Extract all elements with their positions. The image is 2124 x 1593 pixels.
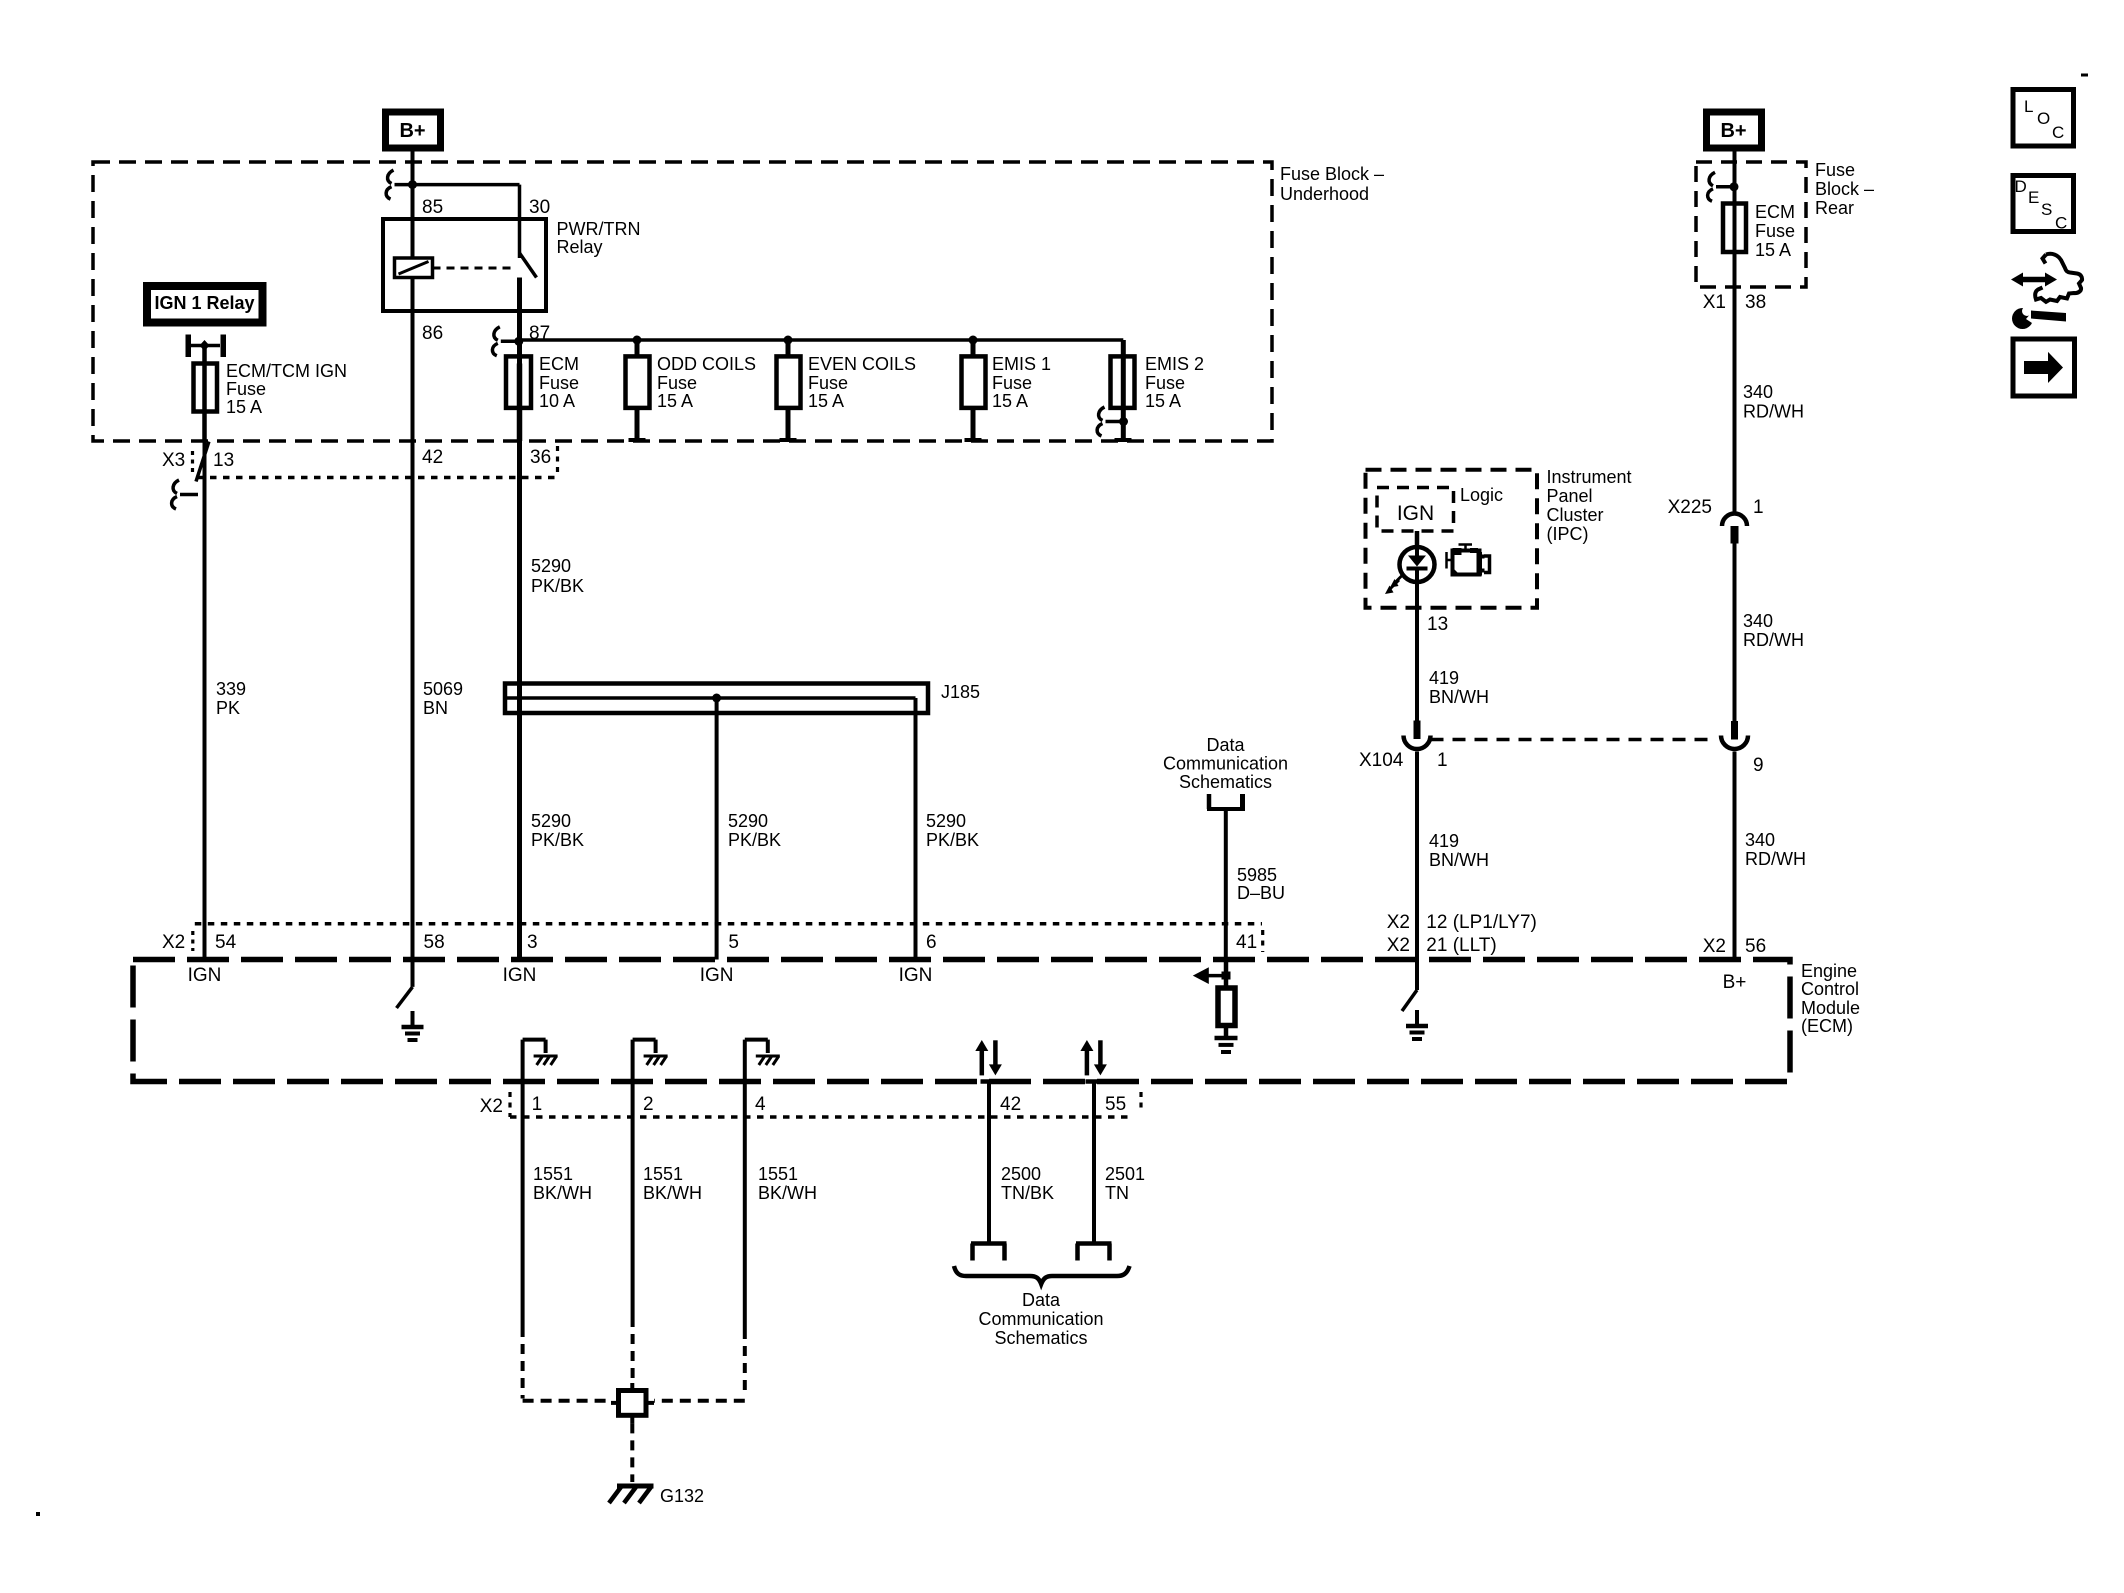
svg-text:339: 339 — [216, 679, 246, 699]
svg-text:2500: 2500 — [1001, 1164, 1041, 1184]
pin X2-56 labels — [1703, 936, 1766, 957]
svg-text:BK/WH: BK/WH — [643, 1183, 702, 1203]
svg-text:1: 1 — [532, 1094, 543, 1115]
connector X3 dotted bracket — [191, 451, 194, 474]
svg-text:5290: 5290 — [531, 556, 571, 576]
wire 5290 to ECM pin 6 — [914, 698, 918, 960]
svg-text:5290: 5290 — [728, 811, 768, 831]
Fuse Block - Rear boundary box — [1696, 162, 1806, 287]
Fuse Block - Rear label — [1815, 160, 1874, 218]
fuse F3: ODD COILS Fuse 15 A — [626, 340, 650, 440]
dashed lead to G132 — [630, 1423, 634, 1482]
svg-text:Data: Data — [1206, 735, 1245, 755]
ECM serial data arrows (pin 55) — [1080, 1040, 1107, 1075]
svg-text:IGN: IGN — [899, 965, 933, 986]
svg-text:Instrument: Instrument — [1547, 467, 1632, 487]
wire label 419 BN/WH (upper) — [1429, 668, 1489, 707]
ground G132 — [609, 1486, 654, 1503]
svg-text:9: 9 — [1753, 755, 1764, 776]
wire label 5290 PK/BK (pin 5) — [728, 811, 781, 850]
wire label 2501 TN — [1105, 1164, 1145, 1203]
IPC Logic label — [1460, 485, 1503, 505]
svg-text:6: 6 — [926, 932, 937, 953]
svg-text:PK/BK: PK/BK — [926, 830, 979, 850]
svg-text:15 A: 15 A — [808, 391, 844, 411]
svg-text:X2: X2 — [1387, 935, 1410, 956]
svg-text:BN/WH: BN/WH — [1429, 687, 1489, 707]
svg-text:BN: BN — [423, 698, 448, 718]
ECM internal ground pigtail (pin 1) — [523, 1040, 558, 1065]
tick at ECM pin 42 (bottom) — [981, 1079, 998, 1084]
svg-text:12 (LP1/LY7): 12 (LP1/LY7) — [1426, 912, 1537, 933]
pin 41 label — [1236, 932, 1257, 953]
ECM fuse label — [539, 354, 579, 411]
pin 6 label — [926, 932, 937, 953]
wire label 419 BN/WH (lower) — [1429, 831, 1489, 870]
wire B+ rear down — [1733, 152, 1737, 253]
pin 55 label (bottom) — [1105, 1094, 1126, 1115]
fuse F6: EMIS 2 Fuse 15 A — [1111, 356, 1135, 440]
node: ODD COILS bus junction — [633, 336, 642, 345]
svg-text:30: 30 — [529, 197, 550, 218]
wire 5290 to ECM pin 3 — [517, 441, 522, 960]
inline connector X104 pin 1 — [1404, 721, 1431, 750]
relay switch blade (pin30 to 87) — [520, 253, 537, 278]
wire label 5290 PK/BK (pin 3) — [531, 811, 584, 850]
pin row right dotted bracket — [556, 446, 559, 477]
connector X1 pin 38 labels — [1703, 292, 1766, 313]
svg-text:340: 340 — [1743, 611, 1773, 631]
Fuse Block - Underhood label — [1280, 164, 1384, 204]
ECM internal label IGN (pin 54) — [188, 965, 222, 986]
IPC logic box IGN — [1377, 488, 1454, 532]
wire label 5290 PK/BK (pin 6) — [926, 811, 979, 850]
power node B+ (left feed) — [386, 112, 441, 148]
icon box: right arrow — [2013, 339, 2075, 396]
svg-text:ECM: ECM — [1755, 202, 1795, 222]
svg-text:TN: TN — [1105, 1183, 1129, 1203]
lamp rays — [1385, 574, 1404, 595]
svg-text:IGN: IGN — [1397, 502, 1434, 525]
ECM internal: terminating resistor — [1218, 960, 1235, 1039]
svg-text:BK/WH: BK/WH — [758, 1183, 817, 1203]
pin 85 label — [422, 197, 443, 218]
svg-text:15 A: 15 A — [657, 391, 693, 411]
ECM internal label IGN (pin 3) — [503, 965, 537, 986]
pin row dotted line (bottom) — [510, 1115, 1133, 1119]
wire 340 RD/WH upper — [1733, 252, 1737, 514]
svg-text:B+: B+ — [399, 120, 425, 142]
svg-text:15 A: 15 A — [226, 397, 262, 417]
svg-text:X104: X104 — [1359, 750, 1404, 771]
splice S: ground splice — [611, 1383, 654, 1423]
connector slash at X3-13 — [196, 442, 209, 482]
pin 42 label — [422, 447, 443, 468]
wire 5069 BN: relay 86 to ECM pin 58 — [411, 278, 415, 987]
icon: vehicle with arrows and wrench — [2011, 254, 2082, 329]
wire label 5290 PK/BK (upper) — [531, 556, 584, 596]
svg-text:56: 56 — [1745, 936, 1766, 957]
wire 87 to ECM fuse — [517, 311, 522, 364]
connector X2 label (bottom) — [480, 1096, 503, 1117]
Data Communication Schematics label (bottom) — [978, 1290, 1103, 1348]
svg-text:Fuse: Fuse — [539, 373, 579, 393]
node: rear B+ junction — [1730, 182, 1739, 191]
svg-text:PK/BK: PK/BK — [531, 830, 584, 850]
wire label 5985 D-BU — [1237, 865, 1285, 903]
svg-text:BK/WH: BK/WH — [533, 1183, 592, 1203]
icon box LOC — [2013, 90, 2074, 147]
svg-text:(ECM): (ECM) — [1801, 1016, 1853, 1036]
svg-text:5290: 5290 — [531, 811, 571, 831]
svg-text:Fuse: Fuse — [992, 373, 1032, 393]
switch slant at pin 58 (internal) — [397, 987, 413, 1008]
svg-text:Logic: Logic — [1460, 485, 1503, 505]
svg-text:Fuse: Fuse — [226, 379, 266, 399]
wire B+ to PWR/TRN relay pin 85 (coil) — [411, 152, 415, 259]
relay label PWR/TRN — [557, 219, 641, 257]
svg-text:X2: X2 — [162, 932, 185, 953]
svg-text:42: 42 — [422, 447, 443, 468]
svg-text:Data: Data — [1022, 1290, 1061, 1310]
G132 label — [660, 1486, 704, 1506]
brace: data communication group — [954, 1266, 1130, 1284]
svg-text:15 A: 15 A — [1145, 391, 1181, 411]
svg-text:IGN 1 Relay: IGN 1 Relay — [154, 293, 254, 313]
svg-text:PWR/TRN: PWR/TRN — [557, 219, 641, 239]
svg-text:RD/WH: RD/WH — [1743, 402, 1804, 422]
svg-text:10 A: 10 A — [539, 391, 575, 411]
wire 340 RD/WH lower — [1733, 752, 1737, 960]
svg-text:Schematics: Schematics — [1179, 772, 1272, 792]
tick at ECM pin 55 (bottom) — [1086, 1079, 1103, 1084]
svg-text:41: 41 — [1236, 932, 1257, 953]
connector X2 dotted bracket (left) — [191, 931, 194, 951]
connector hook at EMIS 2 — [1097, 407, 1123, 436]
wire 2501 TN — [1092, 1082, 1096, 1243]
pin 86 label — [422, 323, 443, 344]
svg-text:Control: Control — [1801, 979, 1859, 999]
svg-text:C: C — [2055, 214, 2067, 233]
svg-text:ODD COILS: ODD COILS — [657, 354, 756, 374]
svg-text:5: 5 — [728, 932, 739, 953]
svg-text:EMIS 1: EMIS 1 — [992, 354, 1051, 374]
svg-text:419: 419 — [1429, 668, 1459, 688]
svg-text:21 (LLT): 21 (LLT) — [1426, 935, 1496, 956]
wire 5290: fuse bus from relay 87 — [519, 340, 1124, 356]
pin row dotted bracket left (bottom) — [508, 1092, 511, 1117]
svg-text:13: 13 — [1427, 614, 1448, 635]
icon box DESC — [2013, 176, 2074, 233]
wire 1551 BK/WH (pin 4) — [654, 1040, 745, 1401]
svg-text:X3: X3 — [162, 450, 185, 471]
svg-text:Schematics: Schematics — [994, 1328, 1087, 1348]
svg-text:1551: 1551 — [533, 1164, 573, 1184]
fuse F5: EMIS 1 Fuse 15 A — [962, 340, 986, 440]
check-engine icon — [1447, 545, 1490, 576]
pin 9 label — [1753, 755, 1764, 776]
ground (internal) under pin 58 — [402, 1011, 424, 1040]
pigtail terminal (2501) — [1076, 1244, 1112, 1261]
svg-text:ECM: ECM — [539, 354, 579, 374]
svg-text:55: 55 — [1105, 1094, 1126, 1115]
svg-text:5290: 5290 — [926, 811, 966, 831]
svg-text:340: 340 — [1745, 830, 1775, 850]
svg-text:13: 13 — [213, 450, 234, 471]
svg-text:Communication: Communication — [1163, 754, 1288, 774]
ECM serial data arrows (pin 42) — [975, 1040, 1002, 1075]
svg-text:X2: X2 — [480, 1096, 503, 1117]
svg-text:15 A: 15 A — [1755, 240, 1791, 260]
fuse F7: ECM Fuse 15 A (rear) — [1723, 204, 1746, 253]
J185 label — [941, 682, 980, 702]
ECM internal: serial data branch arrow — [1193, 967, 1231, 984]
svg-text:1551: 1551 — [643, 1164, 683, 1184]
ODD COILS fuse label — [657, 354, 756, 411]
pin 36 label — [530, 447, 551, 468]
wire label 340 RD/WH (upper) — [1743, 611, 1804, 650]
svg-text:S: S — [2041, 200, 2052, 219]
node: EMIS 2 lower junction — [1119, 417, 1128, 426]
svg-text:Fuse: Fuse — [657, 373, 697, 393]
Engine Control Module (ECM) boundary box — [133, 960, 1790, 1082]
wire label 340 RD/WH (lower) — [1745, 830, 1806, 869]
connector X2 row dotted line — [195, 922, 1262, 926]
svg-text:(IPC): (IPC) — [1547, 524, 1589, 544]
svg-text:Cluster: Cluster — [1547, 505, 1604, 525]
node: J185 tap — [712, 694, 721, 703]
EMIS 1 fuse label — [992, 354, 1051, 411]
svg-text:ECM/TCM IGN: ECM/TCM IGN — [226, 361, 347, 381]
svg-text:J185: J185 — [941, 682, 980, 702]
wire IPC lamp to pin 13 — [1415, 582, 1419, 608]
relay K: PWR/TRN relay box — [383, 219, 546, 311]
ground (internal) under pin 12/21 — [1406, 1010, 1428, 1039]
ECM fuse (rear) label — [1755, 202, 1795, 260]
svg-text:C: C — [2052, 123, 2064, 142]
svg-text:Fuse: Fuse — [1145, 373, 1185, 393]
svg-text:58: 58 — [424, 932, 445, 953]
wire 1551 BK/WH (pin 1) — [523, 1040, 611, 1401]
svg-text:IGN: IGN — [188, 965, 222, 986]
svg-text:1: 1 — [1753, 497, 1764, 518]
svg-text:PK/BK: PK/BK — [531, 576, 584, 596]
svg-text:X1: X1 — [1703, 292, 1726, 313]
wire 419 BN/WH upper — [1415, 608, 1419, 721]
svg-text:L: L — [2024, 97, 2033, 116]
connector X104 dotted line — [1431, 738, 1711, 742]
connector X3 pin 13 labels — [162, 450, 234, 471]
power node B+ (right feed) — [1707, 112, 1762, 148]
tick at ECM pin 41 — [1217, 957, 1235, 962]
svg-text:B+: B+ — [1723, 972, 1747, 993]
svg-text:5069: 5069 — [423, 679, 463, 699]
node: pin 87 bus junction — [514, 337, 523, 346]
pin 2 label (bottom) — [643, 1094, 654, 1115]
node: B+ branch junction — [408, 180, 417, 189]
wire 340 RD/WH mid — [1733, 544, 1737, 722]
svg-text:X225: X225 — [1668, 497, 1712, 518]
source label box: IGN 1 Relay — [147, 286, 263, 323]
ECM internal ground pigtail (pin 2) — [633, 1040, 668, 1065]
svg-text:TN/BK: TN/BK — [1001, 1183, 1054, 1203]
connector X2 label (left) — [162, 932, 185, 953]
ground (internal) under resistor — [1215, 1038, 1238, 1052]
svg-text:IGN: IGN — [700, 965, 734, 986]
pin 42 label (bottom) — [1000, 1094, 1021, 1115]
svg-text:E: E — [2028, 188, 2039, 207]
wire 339 PK to ECM pin 54 — [203, 441, 207, 960]
svg-text:Rear: Rear — [1815, 198, 1854, 218]
EVEN COILS fuse label — [808, 354, 916, 411]
svg-text:RD/WH: RD/WH — [1743, 630, 1804, 650]
svg-text:EMIS 2: EMIS 2 — [1145, 354, 1204, 374]
pin X2-12 / X2-21 labels — [1387, 912, 1537, 956]
pigtail terminal (2500) — [971, 1244, 1007, 1261]
svg-text:Relay: Relay — [557, 237, 603, 257]
svg-text:Communication: Communication — [978, 1309, 1103, 1329]
wire label 2500 TN/BK — [1001, 1164, 1054, 1203]
ECM internal ground pigtail (pin 4) — [745, 1040, 780, 1065]
svg-text:1: 1 — [1437, 750, 1448, 771]
connector X104 label — [1359, 750, 1448, 771]
svg-text:Module: Module — [1801, 998, 1860, 1018]
svg-text:X2: X2 — [1703, 936, 1726, 957]
svg-text:340: 340 — [1743, 382, 1773, 402]
indicator lamp (MIL) in IPC — [1400, 531, 1435, 582]
svg-text:X2: X2 — [1387, 912, 1410, 933]
svg-text:Block –: Block – — [1815, 179, 1874, 199]
wire 339 PK: IGN1 relay through ECM/TCM IGN fuse — [202, 346, 207, 442]
wire label 1551 BK/WH (1) — [533, 1164, 592, 1203]
pigtail terminal (to data comm, top) — [1207, 794, 1245, 811]
svg-text:1551: 1551 — [758, 1164, 798, 1184]
wire label 5069 BN — [423, 679, 463, 718]
pin 30 label — [529, 197, 550, 218]
wire label 340 RD/WH (top) — [1743, 382, 1804, 422]
Data Communication Schematics label (top) — [1163, 735, 1288, 792]
IGN 1 Relay output terminal bracket — [186, 335, 227, 358]
stray mark (bottom left) — [36, 1512, 40, 1516]
svg-text:Engine: Engine — [1801, 961, 1857, 981]
pin 1 label (bottom) — [532, 1094, 543, 1115]
ECM internal label IGN (pin 6) — [899, 965, 933, 986]
svg-text:86: 86 — [422, 323, 443, 344]
switch slant at pin 12/21 (internal) — [1402, 962, 1417, 1011]
svg-text:B+: B+ — [1720, 120, 1746, 142]
pin 41 dotted bracket — [1261, 930, 1264, 952]
svg-text:3: 3 — [527, 932, 538, 953]
Instrument Panel Cluster (IPC) boundary box — [1366, 470, 1538, 608]
pin 87 label — [529, 323, 550, 344]
pin row dotted bracket right (bottom) — [1139, 1092, 1142, 1110]
svg-text:PK/BK: PK/BK — [728, 830, 781, 850]
svg-text:5985: 5985 — [1237, 865, 1277, 885]
splice J185 bar — [505, 684, 928, 714]
svg-text:PK: PK — [216, 698, 240, 718]
svg-text:Fuse: Fuse — [808, 373, 848, 393]
svg-text:42: 42 — [1000, 1094, 1021, 1115]
IPC label — [1547, 467, 1632, 544]
pin 4 label (bottom) — [755, 1094, 766, 1115]
pin 13 label (IPC) — [1427, 614, 1448, 635]
svg-text:4: 4 — [755, 1094, 766, 1115]
svg-text:IGN: IGN — [503, 965, 537, 986]
node: EMIS 1 bus junction — [969, 336, 978, 345]
pin 3 label — [527, 932, 538, 953]
svg-text:38: 38 — [1745, 292, 1766, 313]
svg-text:36: 36 — [530, 447, 551, 468]
wire 5985 D-BU to ECM pin 41 — [1224, 811, 1228, 960]
node: EVEN COILS bus junction — [784, 336, 793, 345]
pin 5 label — [728, 932, 739, 953]
svg-text:Fuse: Fuse — [1755, 221, 1795, 241]
svg-text:BN/WH: BN/WH — [1429, 850, 1489, 870]
Fuse Block - Underhood boundary box — [93, 162, 1272, 441]
fuse F1: ECM/TCM IGN Fuse 15 A — [194, 364, 218, 412]
relay pin 87 contact stub — [517, 278, 522, 312]
svg-text:2501: 2501 — [1105, 1164, 1145, 1184]
svg-text:2: 2 — [643, 1094, 654, 1115]
wire label 339 PK — [216, 679, 246, 718]
svg-text:Fuse Block –: Fuse Block – — [1280, 164, 1384, 184]
EMIS 2 fuse label — [1145, 354, 1204, 411]
wire 1551 BK/WH (pin 2) — [631, 1040, 635, 1383]
ECM internal label IGN (pin 5) — [700, 965, 734, 986]
svg-text:Underhood: Underhood — [1280, 184, 1369, 204]
ECM internal label B+ (pin 56) — [1723, 972, 1747, 993]
svg-text:D–BU: D–BU — [1237, 883, 1285, 903]
svg-text:15 A: 15 A — [992, 391, 1028, 411]
inline connector X225 pin 1 — [1722, 514, 1747, 544]
wire 419 BN/WH lower — [1415, 752, 1419, 963]
ECM label — [1801, 961, 1860, 1036]
wire 2500 TN/BK — [987, 1082, 991, 1243]
pin 54 label — [215, 932, 237, 953]
svg-text:Fuse: Fuse — [1815, 160, 1855, 180]
svg-text:D: D — [2015, 177, 2027, 196]
connector hook at B+ junction — [386, 170, 412, 199]
svg-text:Panel: Panel — [1547, 486, 1593, 506]
svg-text:RD/WH: RD/WH — [1745, 849, 1806, 869]
svg-text:EVEN COILS: EVEN COILS — [808, 354, 916, 374]
svg-text:G132: G132 — [660, 1486, 704, 1506]
pin row dotted line (13..36) — [197, 476, 558, 480]
svg-text:419: 419 — [1429, 831, 1459, 851]
wire label 1551 BK/WH (4) — [758, 1164, 817, 1203]
ECM/TCM IGN fuse label — [226, 361, 347, 417]
inline connector pin 9 — [1721, 721, 1748, 749]
connector hook at X3-13 — [172, 480, 198, 509]
connector hook at rear B+ junction — [1708, 172, 1734, 201]
relay coil — [395, 258, 433, 278]
connector X225 label — [1668, 497, 1764, 518]
relay coil-switch dashed link — [433, 267, 513, 270]
pin 58 label — [424, 932, 445, 953]
wire junction to relay pin 30 — [413, 185, 520, 258]
svg-text:54: 54 — [215, 932, 237, 953]
svg-text:85: 85 — [422, 197, 443, 218]
svg-text:O: O — [2037, 109, 2050, 128]
wire 5290 to ECM pin 5 — [715, 698, 719, 960]
fuse F2: ECM Fuse 10 A — [506, 356, 531, 441]
connector hook at 87 junction — [492, 327, 518, 356]
stray mark (top right) — [2081, 74, 2088, 77]
fuse F4: EVEN COILS Fuse 15 A — [777, 340, 801, 440]
wire label 1551 BK/WH (2) — [643, 1164, 702, 1203]
